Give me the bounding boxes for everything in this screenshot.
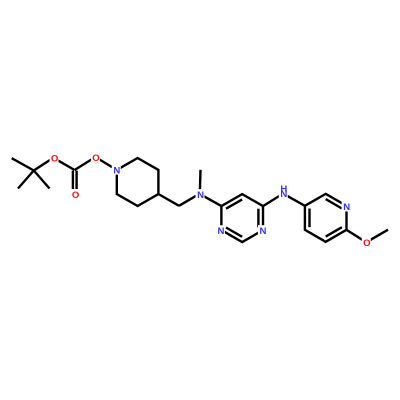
- svg-text:O: O: [363, 238, 371, 249]
- bond Ct-Me3 (tert-butyl methyl down-right): [34, 171, 50, 189]
- label mask N1pyr: [342, 201, 351, 211]
- svg-text:O: O: [72, 190, 80, 201]
- bond Cc-O2: [75, 157, 96, 170]
- pyridine ring: [305, 194, 347, 242]
- label mask O3: [362, 237, 371, 247]
- svg-text:N: N: [113, 165, 120, 176]
- pyridine double bond C5'=C4' inner line: [308, 209, 310, 228]
- pyrimidine ring: [221, 194, 263, 242]
- bond C4p-CH2: [158, 194, 179, 206]
- bond O2-Np: [95, 157, 116, 170]
- piperidine ring: [117, 158, 159, 206]
- label mask N3pym: [258, 225, 267, 235]
- bond Ct-Me1 (tert-butyl methyl up-left): [12, 158, 34, 170]
- svg-text:N: N: [343, 202, 350, 213]
- svg-text:O: O: [92, 153, 100, 164]
- svg-text:O: O: [51, 154, 59, 165]
- label mask O1: [50, 153, 59, 163]
- pyridine double bond C2'=C3' inner line: [326, 227, 342, 236]
- pyrimidine double bond C2=N1 inner line: [226, 228, 242, 237]
- svg-text:N: N: [218, 226, 225, 237]
- bond O1-Cc: [53, 158, 74, 170]
- label mask NH: [279, 184, 288, 200]
- label mask O2: [91, 152, 100, 162]
- pyridine double bond C6'=N1' inner line: [326, 199, 342, 208]
- bond CH2-Nme: [179, 194, 200, 206]
- label mask Od: [70, 189, 79, 199]
- svg-text:N: N: [197, 190, 204, 201]
- bond Ct-Me2 (tert-butyl methyl down-left): [18, 171, 34, 189]
- label mask Nme: [196, 189, 205, 199]
- bond C2pyr-O3: [347, 230, 367, 242]
- bond Ct-O1: [34, 158, 54, 171]
- pyrimidine double bond C4=N3 inner line: [257, 209, 259, 228]
- bond Nh-C5pyr: [283, 194, 305, 206]
- pyrimidine double bond C6=C5 inner line: [226, 199, 242, 208]
- double bond Cc=Od (carbonyl): [73, 171, 77, 194]
- label mask N1pym: [216, 225, 225, 235]
- bond Nme-C6pym: [200, 194, 222, 206]
- bond C4pym-Nh: [263, 194, 283, 207]
- bond O3-OMe (methoxy methyl): [366, 230, 388, 243]
- svg-text:N: N: [260, 226, 267, 237]
- bond Nme-methyl (N-methyl up): [199, 170, 202, 194]
- label mask Np: [112, 165, 121, 175]
- svg-text:N: N: [280, 189, 287, 200]
